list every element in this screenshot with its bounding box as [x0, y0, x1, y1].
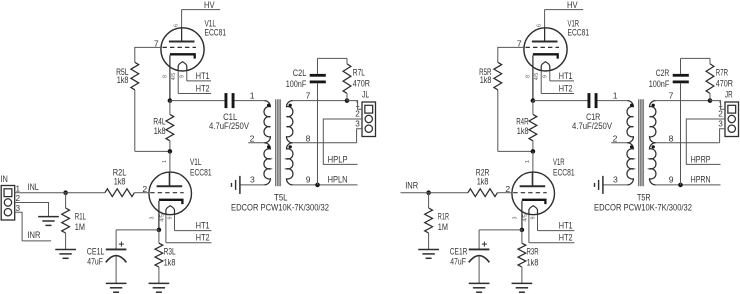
wire [115, 256, 117, 283]
pin label 9 [306, 175, 311, 185]
net label INR (right channel input) [401, 181, 430, 193]
transformer T5R phase dots [630, 104, 655, 149]
wire [317, 58, 319, 74]
svg-text:HT1: HT1 [559, 220, 573, 230]
resistor R4R [516, 114, 537, 140]
svg-text:HT1: HT1 [559, 71, 573, 81]
svg-text:3: 3 [718, 119, 723, 128]
tube V1L lower triode [142, 157, 211, 243]
svg-text:4/5: 4/5 [159, 214, 165, 222]
svg-text:ECC81: ECC81 [190, 168, 212, 178]
ground (R1L) [55, 250, 76, 259]
net label HT2 (lower R) [529, 233, 574, 243]
transformer T5R core [639, 99, 644, 186]
net label HT2 (lower L) [166, 233, 211, 243]
wire (JR pin 1) [710, 101, 725, 110]
resistor R4L [153, 114, 174, 140]
svg-text:INR: INR [27, 230, 40, 240]
wire [498, 47, 524, 62]
net label HT1 (lower L) [175, 220, 212, 230]
net label HPLP [328, 154, 348, 164]
wire [318, 57, 348, 59]
svg-text:1k8: 1k8 [527, 257, 539, 267]
svg-text:7: 7 [669, 91, 674, 101]
wire [116, 229, 159, 231]
wire (JR pin 3) [720, 129, 725, 143]
svg-text:R3L: R3L [164, 246, 176, 256]
svg-text:3: 3 [513, 217, 519, 220]
transformer T5L secondary winding 8-9 [287, 143, 293, 185]
svg-text:EDCOR PCW10K-7K/300/32: EDCOR PCW10K-7K/300/32 [594, 203, 692, 213]
wire [240, 184, 264, 186]
svg-text:R1L: R1L [75, 212, 86, 222]
wire [170, 100, 225, 102]
svg-text:HPLN: HPLN [328, 175, 348, 185]
wire [135, 150, 170, 152]
wire [521, 230, 523, 243]
pin label 3 [250, 175, 255, 185]
svg-text:EDCOR PCW10K-7K/300/32: EDCOR PCW10K-7K/300/32 [231, 203, 329, 213]
wire [346, 58, 348, 64]
junction lower plate node R [531, 149, 536, 154]
wire [158, 267, 160, 283]
wire [497, 90, 499, 152]
junction R7L node [345, 98, 350, 103]
svg-text:8: 8 [306, 133, 311, 143]
svg-text:4/5: 4/5 [171, 73, 177, 81]
wire [429, 192, 468, 194]
wire [428, 193, 430, 208]
svg-text:2: 2 [355, 110, 360, 119]
pin label 3 [613, 175, 618, 185]
junction cathode node L [157, 228, 162, 233]
svg-text:3: 3 [150, 217, 156, 220]
svg-text:7: 7 [306, 91, 311, 101]
transformer T5R primary winding 2-3 [627, 143, 633, 185]
wire [248, 142, 264, 144]
net label HPLN [328, 175, 348, 185]
wire [521, 267, 523, 283]
wire [681, 57, 711, 59]
svg-text:1M: 1M [438, 222, 448, 232]
wire [498, 150, 533, 152]
svg-text:V1L: V1L [190, 157, 202, 167]
wire [680, 84, 682, 185]
pin label 8 [669, 133, 674, 143]
svg-text:6: 6 [537, 24, 543, 27]
net label HT2 (upper R) [541, 83, 574, 93]
wire [293, 142, 357, 144]
junction cathode node R [520, 228, 525, 233]
wire [134, 192, 149, 194]
svg-text:8: 8 [526, 75, 532, 78]
net label HT1 (upper L) [187, 71, 211, 81]
svg-text:2: 2 [250, 133, 255, 143]
svg-text:3: 3 [613, 175, 618, 185]
pin label 7 [306, 91, 311, 101]
svg-text:HV: HV [567, 0, 578, 10]
resistor R2R [468, 167, 498, 196]
net label INL [15, 182, 66, 193]
svg-text:1: 1 [16, 184, 21, 193]
wire [134, 90, 136, 152]
transformer T5R labels [594, 193, 692, 213]
connector JL [355, 90, 375, 137]
svg-text:R3R: R3R [527, 246, 539, 256]
pin label 8 [306, 133, 311, 143]
svg-text:1k8: 1k8 [154, 126, 166, 136]
svg-text:IN: IN [1, 174, 8, 184]
chassis ground (T5L pin 3) [232, 176, 240, 194]
svg-text:4.7uF/250V: 4.7uF/250V [572, 121, 612, 131]
pin label 9 [669, 175, 674, 185]
net label HT1 (upper R) [550, 71, 574, 81]
svg-text:6: 6 [174, 24, 180, 27]
svg-text:2: 2 [613, 133, 618, 143]
svg-text:T5L: T5L [274, 193, 288, 203]
wire [181, 10, 183, 42]
capacitor C1L [209, 93, 249, 131]
resistor R7L [343, 64, 370, 94]
svg-text:JL: JL [362, 90, 369, 100]
junction C2L node [315, 183, 320, 188]
wire (IN pin 3) [15, 212, 22, 241]
junction lower plate node L [168, 149, 173, 154]
wire [66, 192, 105, 194]
net label HT1 (lower R) [538, 220, 575, 230]
net label HPRN [691, 175, 711, 185]
resistor R5L [116, 62, 139, 90]
svg-text:100nF: 100nF [649, 79, 670, 89]
svg-text:1: 1 [250, 91, 255, 101]
transformer T5R secondary winding 8-9 [650, 143, 656, 185]
svg-text:HT1: HT1 [196, 220, 210, 230]
wire [532, 101, 534, 115]
connector IN [1, 174, 21, 220]
svg-text:CE1R: CE1R [450, 246, 468, 256]
svg-text:V1R: V1R [553, 157, 565, 167]
svg-text:C2L: C2L [293, 68, 307, 78]
pin label 2 [250, 133, 255, 143]
svg-text:ECC81: ECC81 [568, 28, 590, 38]
capacitor CE1R [450, 242, 490, 267]
net label INR (at connector) [22, 230, 51, 241]
svg-text:9: 9 [167, 217, 173, 220]
svg-text:470R: 470R [716, 78, 734, 88]
svg-text:1M: 1M [75, 222, 85, 232]
wire [532, 151, 534, 186]
transformer T5R secondary winding 7-8 [650, 101, 656, 143]
wire [709, 58, 711, 64]
connector JR [718, 90, 738, 137]
capacitor C2R [649, 68, 689, 89]
svg-text:8: 8 [163, 75, 169, 78]
svg-text:1: 1 [613, 91, 618, 101]
resistor R3R [518, 243, 539, 267]
wire [478, 256, 480, 283]
resistor R7R [706, 64, 733, 94]
svg-text:1: 1 [162, 160, 168, 163]
junction output node R [531, 98, 536, 103]
svg-text:HT2: HT2 [196, 233, 210, 243]
wire [65, 233, 67, 250]
svg-text:100nF: 100nF [286, 79, 307, 89]
wire [65, 193, 67, 208]
pin label 1 [613, 91, 618, 101]
resistor R1R [425, 208, 450, 233]
wire [479, 229, 522, 231]
transformer T5L primary winding 2-3 [264, 143, 270, 185]
junction input node L [63, 190, 68, 195]
svg-text:470R: 470R [353, 78, 371, 88]
svg-text:T5R: T5R [637, 193, 651, 203]
wire [497, 192, 512, 194]
ground (R3L) [149, 283, 170, 292]
svg-text:9: 9 [669, 175, 674, 185]
svg-text:9: 9 [179, 75, 185, 78]
capacitor C1R [572, 93, 612, 131]
wire (IN pin 2 to ground) [15, 203, 49, 217]
svg-text:HT2: HT2 [196, 83, 210, 93]
svg-text:HV: HV [204, 0, 215, 10]
wire [135, 47, 161, 62]
pin label 2 [613, 133, 618, 143]
pin label 1 [250, 91, 255, 101]
tube V1R lower triode [505, 157, 574, 243]
wire [428, 233, 430, 250]
svg-text:HPRP: HPRP [691, 154, 711, 164]
svg-text:47uF: 47uF [87, 257, 103, 267]
svg-text:R1R: R1R [438, 212, 450, 222]
svg-text:JR: JR [725, 90, 733, 100]
svg-text:3: 3 [250, 175, 255, 185]
wire [235, 100, 265, 102]
svg-text:1k8: 1k8 [117, 75, 129, 85]
resistor R2L [105, 167, 134, 196]
wire [293, 184, 358, 186]
svg-text:2: 2 [16, 194, 21, 203]
wire [293, 100, 347, 102]
svg-text:INR: INR [405, 181, 418, 191]
capacitor CE1L [87, 242, 127, 267]
svg-text:1k8: 1k8 [114, 177, 126, 187]
svg-text:3: 3 [16, 204, 21, 213]
svg-text:9: 9 [542, 75, 548, 78]
svg-text:HT1: HT1 [196, 71, 210, 81]
svg-text:ECC81: ECC81 [205, 28, 227, 38]
wire [611, 142, 627, 144]
transformer T5L phase dots [267, 104, 292, 149]
junction input node R [426, 190, 431, 195]
svg-text:1k8: 1k8 [480, 75, 492, 85]
wire [680, 58, 682, 74]
transformer T5L labels [231, 193, 329, 213]
wire (JL pin 3) [357, 129, 362, 143]
svg-text:2: 2 [718, 110, 723, 119]
net label HT2 (upper L) [178, 83, 211, 93]
wire [533, 100, 588, 102]
wire [709, 93, 711, 100]
wire (JR pin 2 / HPRP) [686, 119, 725, 164]
svg-text:R7R: R7R [716, 68, 729, 78]
tube V1R upper triode [517, 18, 589, 100]
ground (R1R) [418, 250, 439, 259]
junction R7R node [708, 98, 713, 103]
wire [656, 100, 710, 102]
svg-text:HPRN: HPRN [691, 175, 711, 185]
ground (IN pin 2) [38, 217, 59, 226]
wire [532, 141, 534, 152]
ground (CE1L) [106, 283, 127, 292]
wire (JL pin 2 / HPLP) [323, 119, 362, 164]
wire [169, 151, 171, 186]
svg-text:1k8: 1k8 [517, 126, 529, 136]
net label HV (L) [182, 0, 221, 10]
svg-text:47uF: 47uF [450, 257, 466, 267]
junction C2R node [678, 183, 683, 188]
svg-text:9: 9 [306, 175, 311, 185]
wire [169, 101, 171, 115]
svg-text:4/5: 4/5 [522, 214, 528, 222]
svg-text:4.7uF/250V: 4.7uF/250V [209, 121, 249, 131]
transformer T5L core [276, 99, 281, 186]
transformer T5R primary winding 1-2 [627, 101, 633, 143]
net label HPRP [691, 154, 711, 164]
transformer T5L primary winding 1-2 [264, 101, 270, 143]
ground (CE1R) [469, 283, 490, 292]
svg-text:3: 3 [355, 119, 360, 128]
wire [115, 230, 117, 250]
junction output node L [168, 98, 173, 103]
svg-text:1k8: 1k8 [164, 257, 176, 267]
wire [478, 230, 480, 250]
wire [158, 230, 160, 243]
pin label 7 [669, 91, 674, 101]
svg-text:1k8: 1k8 [477, 177, 489, 187]
wire [603, 184, 627, 186]
net label HV (R) [545, 0, 584, 10]
ground (R3R) [512, 283, 533, 292]
svg-text:8: 8 [669, 133, 674, 143]
svg-text:9: 9 [530, 217, 536, 220]
wire [656, 184, 721, 186]
svg-text:INL: INL [28, 182, 39, 192]
wire [544, 10, 546, 42]
wire [346, 93, 348, 100]
transformer T5L secondary winding 7-8 [287, 101, 293, 143]
resistor R5R [479, 62, 502, 90]
wire [598, 100, 628, 102]
svg-text:CE1L: CE1L [87, 246, 105, 256]
svg-text:4/5: 4/5 [534, 73, 540, 81]
resistor R1L [62, 208, 86, 233]
wire [656, 142, 720, 144]
svg-text:HPLP: HPLP [328, 154, 348, 164]
svg-text:C2R: C2R [656, 68, 670, 78]
wire [169, 141, 171, 152]
svg-text:HT2: HT2 [559, 233, 573, 243]
capacitor C2L [286, 68, 326, 89]
svg-text:R7L: R7L [353, 68, 365, 78]
svg-text:1: 1 [525, 160, 531, 163]
svg-text:ECC81: ECC81 [553, 168, 575, 178]
wire [317, 84, 319, 185]
resistor R3L [155, 243, 176, 267]
svg-text:HT2: HT2 [559, 83, 573, 93]
wire (JL pin 1) [347, 101, 362, 110]
chassis ground (T5R pin 3) [595, 176, 603, 194]
tube V1L upper triode [154, 18, 226, 100]
